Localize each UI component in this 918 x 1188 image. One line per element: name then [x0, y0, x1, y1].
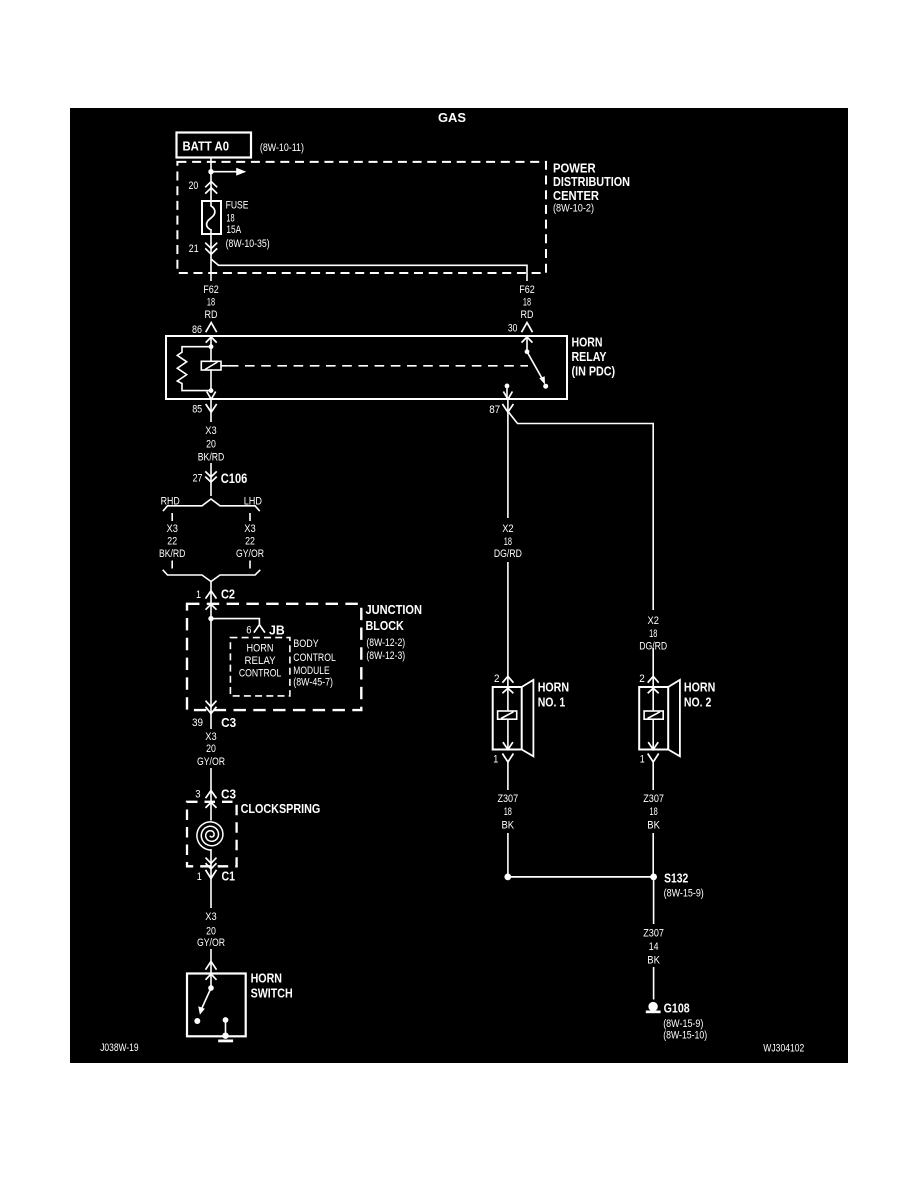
svg-text:GY/OR: GY/OR	[236, 548, 264, 560]
svg-text:SWITCH: SWITCH	[251, 985, 293, 1000]
svg-text:30: 30	[508, 323, 518, 335]
svg-text:GY/OR: GY/OR	[197, 937, 225, 949]
svg-text:CENTER: CENTER	[553, 188, 600, 203]
svg-text:BODY: BODY	[293, 638, 319, 650]
svg-text:1: 1	[493, 754, 498, 766]
svg-text:18: 18	[207, 297, 215, 309]
svg-text:X2: X2	[648, 615, 659, 627]
svg-text:CONTROL: CONTROL	[239, 668, 282, 680]
svg-text:MODULE: MODULE	[293, 665, 329, 677]
svg-text:(8W-10-35): (8W-10-35)	[226, 238, 270, 250]
svg-text:HORN: HORN	[572, 334, 603, 349]
svg-text:NO. 1: NO. 1	[538, 695, 566, 710]
svg-text:HORN: HORN	[538, 680, 569, 695]
svg-text:21: 21	[189, 243, 199, 255]
svg-text:(8W-10-2): (8W-10-2)	[553, 202, 594, 214]
svg-text:BLOCK: BLOCK	[366, 618, 405, 633]
svg-text:(8W-10-11): (8W-10-11)	[260, 142, 304, 154]
svg-text:85: 85	[192, 404, 202, 416]
svg-text:1: 1	[197, 871, 202, 883]
svg-text:WJ304102: WJ304102	[763, 1043, 804, 1055]
svg-text:HORN: HORN	[247, 643, 274, 655]
svg-text:20: 20	[206, 925, 216, 937]
svg-text:22: 22	[245, 535, 255, 547]
svg-text:BATT A0: BATT A0	[183, 139, 230, 154]
svg-text:X3: X3	[205, 731, 216, 743]
svg-text:FUSE: FUSE	[226, 200, 249, 212]
svg-text:(8W-12-2): (8W-12-2)	[366, 637, 405, 649]
svg-text:Z307: Z307	[497, 793, 518, 805]
svg-text:RHD: RHD	[161, 495, 180, 507]
svg-text:CLOCKSPRING: CLOCKSPRING	[241, 801, 321, 816]
svg-text:HORN: HORN	[251, 971, 282, 986]
svg-text:G108: G108	[664, 1000, 690, 1015]
svg-text:2: 2	[639, 673, 645, 685]
svg-text:20: 20	[189, 180, 199, 192]
svg-text:1: 1	[640, 754, 645, 766]
svg-text:22: 22	[167, 535, 177, 547]
svg-text:GAS: GAS	[438, 110, 466, 125]
svg-text:C1: C1	[222, 868, 236, 883]
svg-text:(8W-15-10): (8W-15-10)	[663, 1030, 707, 1042]
svg-text:S132: S132	[664, 870, 688, 885]
svg-text:X3: X3	[244, 523, 255, 535]
svg-text:18: 18	[649, 628, 657, 640]
svg-text:RD: RD	[205, 309, 218, 321]
svg-text:15A: 15A	[226, 224, 241, 236]
svg-text:(8W-12-3): (8W-12-3)	[366, 650, 405, 662]
svg-text:2: 2	[494, 673, 500, 685]
svg-text:6: 6	[246, 625, 251, 637]
svg-text:Z307: Z307	[643, 793, 664, 805]
svg-text:87: 87	[489, 404, 500, 416]
svg-text:20: 20	[206, 743, 216, 755]
svg-text:C3: C3	[221, 786, 236, 801]
svg-text:X3: X3	[205, 425, 216, 437]
svg-text:BK: BK	[647, 820, 660, 832]
svg-text:(8W-45-7): (8W-45-7)	[293, 677, 333, 689]
svg-text:Z307: Z307	[643, 928, 664, 940]
svg-text:GY/OR: GY/OR	[197, 756, 225, 768]
svg-text:18: 18	[523, 297, 531, 309]
svg-text:BK/RD: BK/RD	[198, 451, 225, 463]
svg-text:BK/RD: BK/RD	[159, 548, 186, 560]
svg-text:BK: BK	[647, 955, 660, 967]
svg-text:(IN PDC): (IN PDC)	[572, 364, 616, 379]
svg-text:(8W-15-9): (8W-15-9)	[664, 887, 704, 899]
svg-text:BK: BK	[502, 820, 515, 832]
svg-text:18: 18	[226, 213, 234, 225]
svg-text:X3: X3	[167, 523, 178, 535]
svg-text:86: 86	[192, 324, 202, 336]
svg-text:JB: JB	[269, 622, 285, 637]
svg-text:DG/RD: DG/RD	[639, 641, 667, 653]
svg-text:F62: F62	[519, 284, 535, 296]
svg-text:20: 20	[206, 438, 216, 450]
svg-text:F62: F62	[203, 284, 219, 296]
svg-text:14: 14	[649, 941, 659, 953]
svg-text:JUNCTION: JUNCTION	[366, 602, 423, 617]
svg-text:18: 18	[650, 806, 658, 818]
svg-text:HORN: HORN	[684, 680, 715, 695]
svg-text:NO. 2: NO. 2	[684, 695, 712, 710]
svg-text:CONTROL: CONTROL	[293, 652, 336, 664]
svg-text:J038W-19: J038W-19	[100, 1042, 138, 1054]
svg-text:X2: X2	[502, 523, 513, 535]
svg-text:DG/RD: DG/RD	[494, 548, 522, 560]
svg-text:18: 18	[504, 806, 512, 818]
svg-text:LHD: LHD	[244, 495, 262, 507]
svg-text:27: 27	[193, 473, 203, 485]
svg-text:RELAY: RELAY	[572, 349, 607, 364]
svg-text:39: 39	[192, 717, 203, 729]
svg-text:X3: X3	[205, 911, 216, 923]
svg-text:(8W-15-9): (8W-15-9)	[663, 1018, 703, 1030]
svg-text:RD: RD	[521, 309, 534, 321]
svg-text:18: 18	[504, 536, 512, 548]
svg-text:RELAY: RELAY	[245, 655, 277, 667]
svg-text:C3: C3	[221, 715, 236, 730]
svg-text:3: 3	[195, 788, 200, 800]
svg-text:C106: C106	[221, 470, 248, 486]
svg-text:1: 1	[196, 589, 201, 601]
svg-text:C2: C2	[221, 587, 235, 602]
